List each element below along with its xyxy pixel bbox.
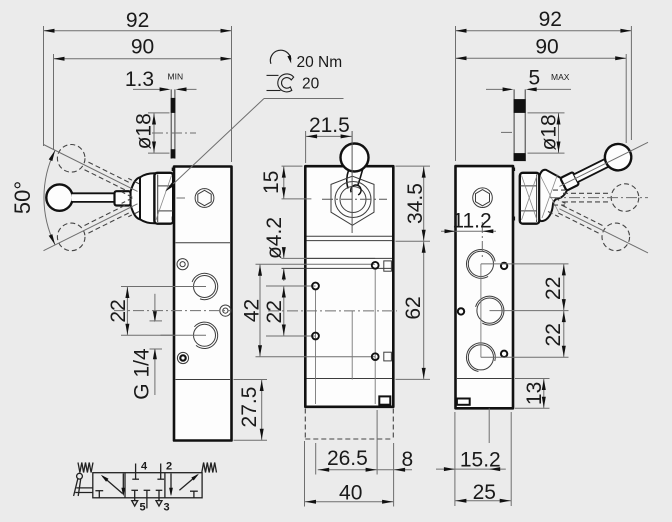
middle 42-ext upper line [256, 263, 375, 265]
dim 62 arrows [422, 242, 426, 253]
middle shaft end ball [351, 185, 361, 195]
symbol right flow diagonal [179, 475, 197, 490]
svg-text:62: 62 [402, 296, 425, 319]
left view port G1/4 lower [194, 324, 216, 346]
svg-text:22: 22 [542, 277, 565, 300]
svg-text:ø18: ø18 [538, 114, 561, 150]
left view ports centerline [114, 310, 231, 312]
symbol exhaust triangle 5 [132, 501, 138, 506]
svg-text:5: 5 [140, 502, 146, 514]
svg-text:MAX: MAX [551, 72, 570, 82]
dim 92 right line [456, 30, 632, 32]
middle view centerline [268, 310, 397, 312]
svg-text:11.2: 11.2 [452, 210, 491, 233]
dim 21.5 line [306, 135, 353, 137]
dim 92/90 left ext lines [43, 26, 45, 146]
svg-text:ø4.2: ø4.2 [263, 217, 286, 259]
right lever dashed horizontal position [611, 184, 639, 212]
middle view body outline [305, 166, 393, 407]
middle screw hole top-left [312, 283, 319, 290]
left view port G1/4 upper [194, 276, 216, 298]
right horizontal centerline [550, 197, 648, 199]
left lever boot cone [131, 177, 140, 219]
middle screw hole bottom-right [372, 353, 379, 360]
svg-text:15.2: 15.2 [460, 449, 501, 472]
left lever dashed up position [57, 223, 85, 251]
right port top [468, 251, 493, 276]
dim 1.3 line [133, 88, 168, 90]
svg-text:40: 40 [339, 481, 362, 504]
right lever collar and shaft [558, 139, 636, 196]
symbol port2 stub [160, 464, 162, 480]
dim 11.2 arrows [445, 229, 456, 233]
note underline [264, 98, 344, 100]
dim 5 line [486, 88, 511, 90]
dim 42 arrows [258, 265, 262, 276]
svg-text:92: 92 [539, 8, 562, 31]
right screw hole bottomright [501, 351, 507, 357]
middle hub centerline h [322, 198, 387, 200]
middle body tangent line upper [282, 257, 376, 259]
dim 92 right arrows [456, 29, 467, 33]
left lever ball [46, 184, 72, 210]
left 50deg lower ray [44, 145, 138, 192]
dim o4.2 line [283, 248, 285, 259]
middle clamp block [379, 396, 390, 404]
right view centerline v [481, 222, 483, 258]
right view base joint line [457, 378, 512, 380]
right screw hole left [458, 308, 464, 314]
svg-text:21.5: 21.5 [309, 114, 350, 137]
dim o4.2 arrows [282, 247, 286, 258]
middle dashed sub-base [304, 409, 306, 440]
right ray down [559, 142, 648, 186]
dim 15 line [283, 166, 285, 199]
dim 26.5 ext lines [315, 443, 317, 475]
right lever mounting nut [520, 173, 540, 224]
dim 13 line [543, 379, 545, 409]
middle hub circle outer [335, 182, 371, 218]
symbol divider left [124, 473, 126, 498]
left view mounting hole upper [177, 259, 188, 270]
svg-text:4: 4 [141, 461, 148, 473]
middle lever shaft S-curve [347, 169, 363, 189]
dim 40 line [305, 501, 394, 503]
symbol divider right [164, 473, 166, 498]
right view hex-socket screw [473, 188, 493, 208]
dim 27.5 arrows [260, 380, 264, 391]
dim 15 ext [282, 165, 303, 167]
middle side pocket lower [384, 352, 392, 361]
dim 22 left arrows [125, 287, 129, 298]
dim 15 arrows [282, 167, 286, 178]
dim 22 lower arrows [562, 311, 566, 322]
svg-text:20 Nm: 20 Nm [297, 54, 343, 71]
dim o18 right ext [528, 112, 565, 114]
dim 8 arrow [394, 468, 405, 472]
dim 22 left line [126, 287, 128, 336]
right ports bolt line [480, 264, 482, 357]
symbol port4 stub [135, 464, 137, 480]
right clamp block [457, 399, 470, 405]
right panel section lines [513, 89, 515, 161]
right lever dashed down position [602, 223, 630, 251]
middle port1 bore line [351, 311, 353, 380]
symbol exhaust triangle 3 [156, 501, 162, 506]
left view mounting hole lower [177, 352, 188, 363]
middle lever ball [341, 144, 369, 172]
symbol left down arrow [122, 474, 124, 495]
symbol left flow diagonal [103, 476, 123, 493]
middle hub circle inner [340, 187, 366, 213]
left lever mounting nut [154, 173, 173, 224]
svg-text:27.5: 27.5 [238, 387, 261, 428]
middle bore line right [374, 270, 376, 405]
right ray up [559, 209, 648, 253]
symbol right down arrow [170, 474, 172, 495]
svg-text:25: 25 [473, 481, 496, 504]
dim o18 left line [153, 113, 155, 153]
middle side pocket upper [384, 261, 392, 271]
dim 90 right arrows [456, 56, 467, 60]
dim 62 ext [396, 378, 431, 380]
dim 90 right line [456, 57, 627, 59]
right panel fill top [514, 99, 526, 113]
svg-text:3: 3 [164, 502, 170, 514]
right nut hex facet lines [520, 185, 536, 187]
dim 21.5 ext left [305, 131, 307, 163]
dim 22 left ext [121, 286, 206, 288]
dim 34.5 line [423, 166, 425, 241]
dim 34.5 arrows [422, 167, 426, 178]
middle 42-ext lower line [256, 356, 376, 358]
dim 40 ext lines [304, 441, 306, 507]
middle 22-ext upper line [266, 285, 316, 287]
symbol right T stub [190, 490, 198, 492]
right panel centerline [501, 131, 512, 133]
dim 27.5 line [261, 380, 263, 441]
svg-text:8: 8 [402, 448, 414, 471]
dim 27.5 ext [234, 379, 268, 381]
middle body top joint lines [307, 235, 393, 237]
right body edge tabs [513, 168, 516, 172]
dim 22 right upper line [563, 264, 565, 311]
dim o18 left arrows [152, 114, 156, 125]
svg-text:90: 90 [131, 36, 154, 59]
left panel centerline [152, 132, 196, 134]
middle screw hole bottom-left [312, 333, 319, 340]
symbol port3 stub [158, 490, 160, 500]
left panel section fill bottom [171, 149, 176, 158]
right port bottom [468, 345, 493, 370]
svg-text:2: 2 [166, 461, 172, 473]
symbol port1 stub [146, 490, 148, 508]
symbol lever circle [77, 473, 83, 479]
left body edge tabs [172, 168, 175, 172]
left lever boot cylinder [140, 173, 154, 223]
dim 92 left arrows [44, 29, 55, 33]
dim 26.5 line [318, 469, 377, 471]
right mid-port ext line [488, 408, 490, 443]
left 50deg arc arrows [49, 150, 55, 161]
right lever boot [539, 170, 567, 221]
svg-text:22: 22 [107, 299, 130, 322]
dim 90 left arrows [54, 57, 65, 61]
svg-text:20: 20 [302, 76, 320, 93]
right screw hole topright [501, 263, 507, 269]
dim o18 right line [558, 113, 560, 153]
dim 40 arrows [305, 500, 316, 504]
svg-text:26.5: 26.5 [327, 447, 368, 470]
dim 21.5 arrows [306, 134, 317, 138]
dim 92/90 right ext [455, 26, 457, 161]
dim 62 line [423, 241, 425, 379]
dim 26.5 arrows [318, 468, 329, 472]
svg-text:15: 15 [260, 171, 283, 194]
svg-text:22: 22 [263, 300, 286, 323]
middle screw hole top-right [372, 262, 379, 269]
left view mounting hole right [220, 305, 231, 316]
middle 22-ext lower line [266, 335, 316, 337]
dim 8 line [377, 469, 412, 471]
symbol port5 stub [134, 490, 136, 500]
symbol spring left [78, 463, 93, 473]
middle bore line left [315, 290, 317, 404]
G14 arrows [153, 311, 157, 322]
left panel section lines [170, 89, 172, 158]
dim 1.3 arrows [160, 87, 171, 91]
left view hex-socket screw [195, 189, 214, 208]
dim 22 right lower line [563, 311, 565, 358]
svg-text:13: 13 [523, 382, 546, 405]
right 22 ext lines [481, 263, 569, 265]
middle body tangent line lower [282, 267, 393, 269]
dim 25 arrows [455, 499, 466, 503]
dim 92 left line [44, 30, 232, 32]
middle hub hexagon [331, 176, 374, 225]
dim 22 mid line [283, 286, 285, 336]
right panel fill bottom [514, 153, 526, 161]
svg-text:ø18: ø18 [133, 113, 156, 149]
middle centerline v [351, 131, 353, 233]
wrench symbol [277, 73, 294, 93]
dim 15.2 arrows [444, 467, 455, 471]
symbol left T stub [95, 490, 103, 492]
left lever shaft [72, 193, 116, 202]
left nut hex facet lines [158, 185, 173, 187]
svg-text:MIN: MIN [168, 72, 184, 82]
left 50deg upper ray [44, 204, 138, 251]
left view body outline [174, 167, 232, 441]
svg-text:5: 5 [529, 67, 541, 90]
dim 25 ext [454, 412, 456, 506]
svg-text:50°: 50° [10, 181, 35, 214]
right view body outline [456, 166, 514, 408]
left nut cross mark [156, 176, 172, 221]
G14 ticks [150, 320, 163, 322]
svg-text:22: 22 [542, 323, 565, 346]
svg-text:90: 90 [535, 36, 558, 59]
note leader to nut [167, 99, 264, 191]
dim 13 arrows [542, 379, 546, 390]
dim 22 upper arrows [562, 264, 566, 275]
symbol valve box [93, 473, 202, 498]
dim 42 line [259, 264, 261, 357]
dim 13 ext [515, 378, 550, 380]
symbol spring right [202, 463, 217, 473]
svg-text:34.5: 34.5 [404, 183, 427, 224]
symbol lever legs [74, 479, 78, 496]
left 50deg arc [44, 150, 55, 245]
torque arrow symbol [270, 50, 291, 64]
dim 22 mid arrows [282, 287, 286, 298]
svg-text:1.3: 1.3 [125, 68, 154, 91]
svg-text:92: 92 [126, 9, 149, 32]
dim 11.2 line [441, 230, 496, 232]
right port middle [477, 298, 502, 323]
dim 90 left line [54, 58, 232, 60]
svg-text:42: 42 [241, 299, 264, 322]
left view base joint line [176, 379, 231, 381]
left panel section fill top [171, 98, 176, 113]
dim 5 arrows [503, 87, 514, 91]
dim o18 left ext [148, 112, 170, 114]
left view screw centerline dash [177, 197, 186, 199]
G14 leader line [154, 294, 156, 321]
left view top-plate joint line [176, 242, 231, 244]
dim 34.5 ext [396, 165, 431, 167]
dim 25 line [455, 500, 511, 502]
left lever dashed down position [57, 145, 85, 173]
symbol lever bars [76, 487, 93, 489]
svg-text:G 1/4: G 1/4 [131, 348, 154, 400]
middle base joint line [307, 378, 393, 380]
right nut cross mark [522, 176, 538, 221]
dim o18 right arrows [557, 114, 561, 125]
left lever collar [115, 191, 131, 205]
dim 15.2 line [436, 468, 506, 470]
